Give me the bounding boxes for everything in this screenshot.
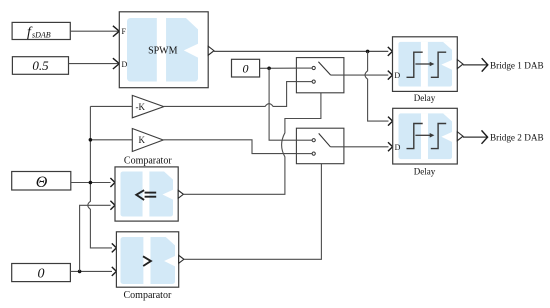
gain K bbox=[132, 129, 163, 152]
constant 0 (bottom) bbox=[12, 264, 71, 282]
svg-text:sDAB: sDAB bbox=[32, 31, 51, 40]
constant 0 (top) bbox=[232, 59, 260, 77]
delay2 block bbox=[393, 108, 463, 176]
switch2 bbox=[296, 128, 344, 164]
junction node on SPWM output bbox=[366, 50, 370, 54]
comparator1 block (<=) bbox=[115, 155, 183, 221]
wire comparator1 output to switch1 control (big hop over two wires) bbox=[183, 93, 321, 195]
wire riser to -K input bbox=[90, 105, 132, 107]
constant theta bbox=[12, 172, 71, 191]
wire theta to comparator1 input 1 bbox=[71, 178, 115, 187]
wire 0.5 to SPWM D bbox=[69, 58, 120, 69]
constant 0.5 bbox=[12, 57, 68, 75]
svg-text:SPWM: SPWM bbox=[148, 46, 178, 57]
svg-text:Delay: Delay bbox=[414, 93, 436, 103]
svg-text:Comparator: Comparator bbox=[124, 155, 172, 166]
wire 0 up to comparator1 input 2 bbox=[80, 201, 115, 272]
svg-text:Bridge 2 DAB: Bridge 2 DAB bbox=[490, 133, 544, 143]
wire 0 to comparator2 input 2 bbox=[70, 267, 116, 276]
svg-text:Comparator: Comparator bbox=[124, 290, 172, 301]
wire junction down to Delay2 top input (hops over switch1 output wire) bbox=[365, 51, 393, 125]
svg-text:-K: -K bbox=[136, 102, 146, 112]
gain -K bbox=[132, 95, 164, 117]
svg-text:Delay: Delay bbox=[414, 167, 436, 177]
wire delay1 to outport Bridge 1 DAB bbox=[463, 58, 488, 71]
wire comparator2 output to switch2 control bbox=[184, 164, 322, 260]
wire riser to K input bbox=[90, 139, 132, 141]
wire switch1 output to Delay1 D input bbox=[331, 71, 393, 80]
svg-text:D: D bbox=[122, 60, 128, 69]
svg-text:K: K bbox=[139, 135, 146, 145]
junction node at 0 output bbox=[78, 270, 82, 274]
junction node below 0 bbox=[267, 67, 271, 71]
comparator2 block (>) bbox=[116, 232, 183, 301]
arrow into comparator2 input 1 bbox=[112, 243, 117, 252]
svg-text:0: 0 bbox=[243, 62, 249, 76]
svg-text:Θ: Θ bbox=[36, 174, 48, 191]
svg-text:D: D bbox=[394, 71, 400, 80]
wire switch2 output to Delay2 D input bbox=[330, 142, 392, 151]
svg-text:0.5: 0.5 bbox=[32, 58, 49, 73]
SPWM block U1 bbox=[119, 12, 214, 88]
svg-text:D: D bbox=[395, 143, 401, 152]
junction node at K input bbox=[89, 138, 93, 142]
switch1 bbox=[296, 58, 344, 93]
junction node at theta output bbox=[89, 181, 93, 185]
wire 0 to switch1 top contact bbox=[260, 67, 312, 69]
svg-text:Bridge 1 DAB: Bridge 1 DAB bbox=[490, 60, 544, 70]
wire junction down then right to switch2 top contact bbox=[269, 68, 312, 140]
wire -K output to switch1 bottom contact (hops over 0-branch vertical) bbox=[164, 82, 312, 107]
wire fsDAB to SPWM F bbox=[70, 26, 119, 37]
svg-text:F: F bbox=[122, 27, 127, 36]
wire SPWM output to Delay1 top input bbox=[214, 47, 392, 56]
wire delay2 to outport Bridge 2 DAB bbox=[463, 130, 488, 143]
theta source riser feeding -K, K, comparator2 bbox=[88, 106, 112, 248]
svg-text:0: 0 bbox=[38, 266, 45, 281]
constant fsDAB bbox=[12, 22, 70, 40]
delay1 block bbox=[393, 37, 464, 103]
wire K output to switch2 bottom contact bbox=[163, 140, 312, 154]
